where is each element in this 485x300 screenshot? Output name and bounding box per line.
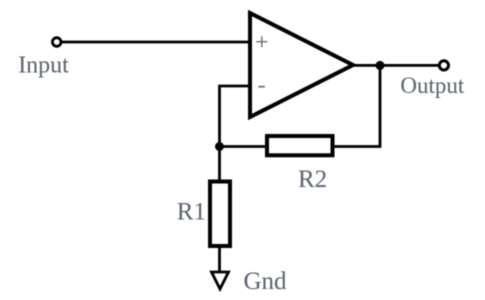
svg-text:R2: R2	[298, 166, 327, 193]
svg-text:Output: Output	[400, 73, 465, 98]
svg-text:Input: Input	[18, 53, 69, 79]
svg-text:Gnd: Gnd	[244, 268, 288, 295]
svg-text:R1: R1	[177, 199, 206, 226]
